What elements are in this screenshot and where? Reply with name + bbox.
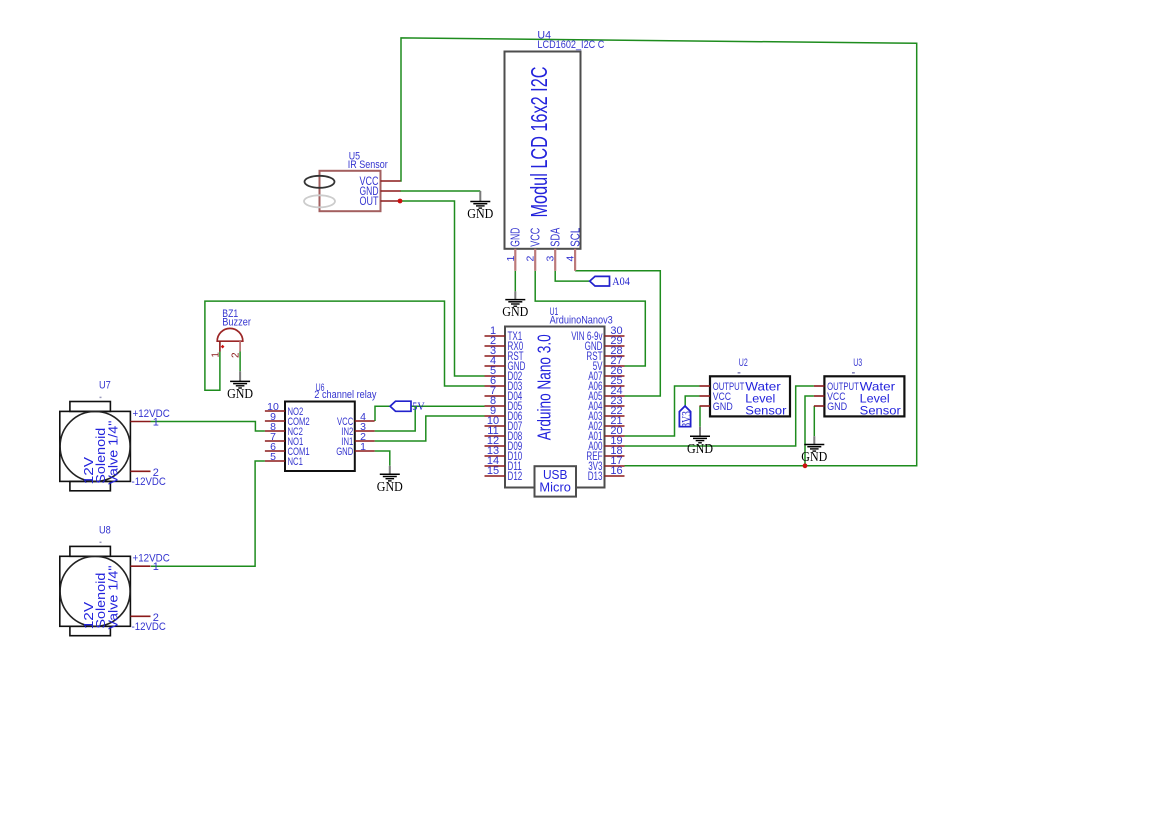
junction dot at IR OUT — [398, 199, 403, 204]
svg-text:A04: A04 — [612, 274, 630, 288]
svg-text:VCC: VCC — [528, 228, 542, 247]
svg-text:Modul LCD 16x2 I2C: Modul LCD 16x2 I2C — [526, 67, 552, 218]
svg-text:D13: D13 — [588, 471, 603, 483]
buzzer pin 2 stub — [239, 341, 241, 351]
svg-text:2: 2 — [153, 467, 159, 479]
U6 pin 10 NO2 stub — [265, 410, 285, 412]
water level sensor U3 marker dash — [852, 372, 855, 374]
ground GND under water sensor U3 — [801, 445, 827, 466]
U1 pin 11 D08 stub — [485, 435, 506, 437]
solenoid valve U8 marker dash — [100, 541, 102, 543]
svg-text:GND: GND — [502, 305, 528, 320]
svg-text:GND: GND — [713, 401, 733, 413]
solenoid valve U8 top tab — [70, 546, 111, 556]
ground stem near IR sensor — [479, 191, 481, 202]
water level sensor U2 body — [710, 376, 790, 416]
U1 pin 14 D11 stub — [485, 465, 506, 467]
LCD module U4 body — [505, 52, 581, 249]
U1 pin 12 D09 stub — [485, 445, 506, 447]
solenoid valve U8 bottom tab — [70, 626, 111, 635]
svg-text:OUT: OUT — [360, 194, 379, 208]
svg-text:SCL: SCL — [568, 228, 582, 247]
solenoid valve U7 top tab — [70, 402, 111, 412]
wire relay GND pin1 to ground — [375, 451, 390, 466]
IR sensor U5 lens ellipse bottom — [304, 195, 335, 207]
svg-text:IR Sensor: IR Sensor — [348, 159, 388, 171]
U1 pin 4 GND stub — [485, 365, 506, 367]
U6 pin 2 IN1 stub — [355, 440, 375, 442]
IR sensor pin VCC stub — [381, 180, 401, 182]
U6 pin 9 COM2 stub — [265, 420, 285, 422]
wire net 3V3 loop: IR VCC riser / top diagonal / right drop / bottom return to U1 pin17 — [401, 38, 917, 466]
U2 pin OUTPUT stub — [700, 385, 711, 387]
svg-text:+12VDC: +12VDC — [133, 553, 170, 565]
svg-text:D12: D12 — [508, 471, 523, 483]
svg-text:Arduino Nano 3.0: Arduino Nano 3.0 — [535, 334, 555, 440]
U1 pin 22 A03 stub — [605, 415, 625, 417]
svg-text:ArduinoNanov3: ArduinoNanov3 — [550, 315, 613, 327]
svg-text:U2: U2 — [739, 357, 748, 369]
svg-text:2: 2 — [231, 352, 242, 358]
svg-text:Valve 1/4": Valve 1/4" — [106, 420, 121, 484]
svg-text:2 channel relay: 2 channel relay — [314, 389, 377, 401]
svg-text:3V3: 3V3 — [679, 411, 693, 428]
LCD pin 4 SCL stub — [574, 249, 576, 271]
U1 pin 27 5V stub — [605, 365, 625, 367]
svg-text:5: 5 — [270, 451, 276, 463]
solenoid valve U8 body square — [60, 556, 131, 626]
svg-text:GND: GND — [227, 387, 253, 402]
svg-text:2: 2 — [525, 256, 537, 262]
net flag 3V3 vertical — [679, 406, 690, 427]
U2 pin GND stub — [700, 405, 711, 407]
U1 pin 30 VIN 6-9v stub — [605, 335, 625, 337]
Arduino Nano U1 USB connector box — [535, 466, 577, 496]
wire buzzer pin2 to ground — [239, 352, 241, 372]
U1 pin 2 RX0 stub — [485, 345, 506, 347]
ground stem under U2 — [699, 427, 701, 437]
Arduino Nano U1 body — [505, 327, 605, 488]
wire IR GND to ground — [400, 190, 480, 192]
svg-text:LCD1602_I2C C: LCD1602_I2C C — [537, 39, 604, 51]
svg-text:1: 1 — [153, 417, 159, 429]
buzzer BZ1 polarity mark — [221, 345, 225, 349]
svg-text:Micro: Micro — [539, 480, 571, 495]
svg-text:GND: GND — [687, 442, 713, 457]
U1 pin 10 D07 stub — [485, 425, 506, 427]
svg-text:U7: U7 — [99, 380, 111, 392]
net flag A04 — [590, 276, 610, 286]
svg-text:GND: GND — [509, 228, 523, 247]
svg-text:Buzzer: Buzzer — [222, 316, 251, 328]
U1 pin 20 A01 stub — [605, 435, 625, 437]
solenoid valve U7 marker dash — [100, 396, 102, 398]
svg-text:GND: GND — [377, 480, 403, 495]
U1 pin 25 A06 stub — [605, 385, 625, 387]
svg-text:1: 1 — [210, 352, 221, 358]
ground stem under U3 — [813, 436, 815, 444]
wire U2 GND to ground — [699, 406, 701, 427]
wire LCD pin2 VCC to U1 5V pin27 — [535, 271, 645, 366]
svg-text:1: 1 — [360, 441, 366, 453]
LCD pin 1 GND stub — [514, 249, 516, 271]
water level sensor U2 marker dash — [738, 372, 741, 374]
U3 pin OUTPUT stub — [814, 385, 825, 387]
solenoid valve U7 body square — [60, 411, 131, 481]
U1 pin 9 D06 stub — [485, 415, 506, 417]
U6 pin 7 NO1 stub — [265, 440, 285, 442]
wire U3 VCC tap to 3V3 net — [805, 396, 814, 466]
wire LCD pin3 SDA to A04 flag — [555, 271, 590, 281]
solenoid valve U7 pin 2 stub — [130, 470, 150, 472]
svg-text:3: 3 — [545, 256, 557, 262]
svg-text:-12VDC: -12VDC — [132, 621, 166, 633]
wire buzzer pin1 loop to U1 D03 — [205, 301, 485, 390]
IR sensor pin GND stub — [381, 190, 401, 192]
svg-text:Sensor: Sensor — [745, 404, 786, 418]
ground stem under buzzer — [239, 371, 241, 381]
svg-text:GND: GND — [801, 450, 827, 465]
ground GND near IR sensor U5 — [467, 202, 493, 223]
U1 pin 5 D02 stub — [485, 375, 506, 377]
wire IR OUT to U1 D02 — [400, 201, 485, 376]
buzzer pin 1 stub — [219, 341, 221, 351]
svg-text:-12VDC: -12VDC — [132, 476, 166, 488]
svg-text:GND: GND — [336, 446, 353, 458]
svg-text:Valve 1/4": Valve 1/4" — [106, 565, 121, 629]
water level sensor U3 body — [824, 376, 904, 416]
wire U7 pin1 to relay NC2 — [151, 422, 265, 432]
U1 pin 1 TX1 stub — [485, 335, 506, 337]
svg-text:1: 1 — [505, 256, 517, 262]
svg-text:+12VDC: +12VDC — [133, 408, 170, 420]
svg-text:NC1: NC1 — [288, 456, 303, 468]
U3 pin VCC stub — [814, 395, 825, 397]
U1 pin 29 GND stub — [605, 345, 625, 347]
net flag 5V — [390, 401, 411, 411]
U1 pin 15 D12 stub — [485, 475, 506, 477]
ground stem under LCD pin1 — [514, 291, 516, 299]
wire net 5V: relay VCC riser + horizontal to U1 D05 — [375, 406, 485, 421]
wire LCD pin4 SCL to U1 A05 pin24 — [575, 271, 660, 396]
wire U3 GND to ground — [813, 406, 815, 436]
wire U2 OUTPUT to U1 A01 — [625, 386, 700, 436]
U1 pin 24 A05 stub — [605, 395, 625, 397]
U1 pin 13 D10 stub — [485, 455, 506, 457]
U1 pin 8 D05 stub — [485, 405, 506, 407]
solenoid valve U7 bottom tab — [70, 481, 111, 490]
wire LCD pin1 GND down to ground — [514, 271, 516, 292]
wire U8 pin1 to relay NC1 — [151, 461, 265, 566]
svg-text:16: 16 — [610, 465, 622, 477]
U6 pin 6 COM1 stub — [265, 450, 285, 452]
solenoid valve U8 circle — [60, 556, 130, 626]
LCD pin 3 SDA stub — [554, 249, 556, 271]
ground GND under relay U6 — [377, 474, 403, 495]
U2 pin VCC stub — [700, 395, 711, 397]
svg-text:15: 15 — [487, 465, 499, 477]
U6 pin 3 IN2 stub — [355, 430, 375, 432]
solenoid valve U8 pin 1 stub — [130, 565, 150, 567]
svg-text:GND: GND — [827, 401, 847, 413]
U1 pin 28 RST stub — [605, 355, 625, 357]
wire U2 VCC to 3V3 flag — [685, 396, 699, 407]
U1 pin 7 D04 stub — [485, 395, 506, 397]
ground GND under water sensor U2 — [687, 436, 713, 457]
svg-text:Sensor: Sensor — [860, 404, 901, 418]
ground GND under LCD U4 — [502, 300, 528, 321]
U1 pin 18 REF stub — [605, 455, 625, 457]
IR sensor U5 lens ellipse top — [305, 176, 335, 188]
ground stem under relay — [389, 466, 391, 475]
U1 pin 23 A04 stub — [605, 405, 625, 407]
U6 pin 1 GND stub — [355, 450, 375, 452]
wire relay IN2 drop from 5V net — [375, 406, 416, 431]
junction dot on 3V3 net at U3 VCC — [803, 463, 808, 468]
U6 pin 8 NC2 stub — [265, 430, 285, 432]
svg-text:U3: U3 — [853, 357, 862, 369]
svg-text:U8: U8 — [99, 525, 111, 537]
svg-text:5V: 5V — [412, 399, 425, 413]
svg-text:4: 4 — [565, 256, 577, 262]
U1 pin 21 A02 stub — [605, 425, 625, 427]
svg-text:2: 2 — [153, 612, 159, 624]
solenoid valve U7 pin 1 stub — [130, 421, 150, 423]
U3 pin GND stub — [814, 405, 825, 407]
ground GND under buzzer BZ1 — [227, 381, 253, 402]
wire U3 OUTPUT to U1 A00 — [625, 386, 814, 446]
svg-text:GND: GND — [467, 207, 493, 222]
IR sensor U5 body — [320, 171, 381, 211]
LCD pin 2 VCC stub — [534, 249, 536, 271]
U1 pin 16 D13 stub — [605, 475, 625, 477]
U1 pin 3 RST stub — [485, 355, 506, 357]
relay U6 body — [285, 402, 355, 472]
wire relay IN1 to U1 D06 — [375, 416, 485, 441]
buzzer BZ1 body dome — [217, 328, 243, 341]
U1 pin 17 3V3 stub — [605, 465, 625, 467]
U1 pin 26 A07 stub — [605, 375, 625, 377]
solenoid valve U7 circle — [60, 411, 130, 481]
solenoid valve U8 pin 2 stub — [130, 615, 150, 617]
U1 pin 19 A00 stub — [605, 445, 625, 447]
svg-text:1: 1 — [153, 561, 159, 573]
U6 pin 4 VCC stub — [355, 420, 375, 422]
U6 pin 5 NC1 stub — [265, 460, 285, 462]
IR sensor pin OUT stub — [381, 200, 401, 202]
U1 pin 6 D03 stub — [485, 385, 506, 387]
svg-text:SDA: SDA — [548, 227, 562, 246]
